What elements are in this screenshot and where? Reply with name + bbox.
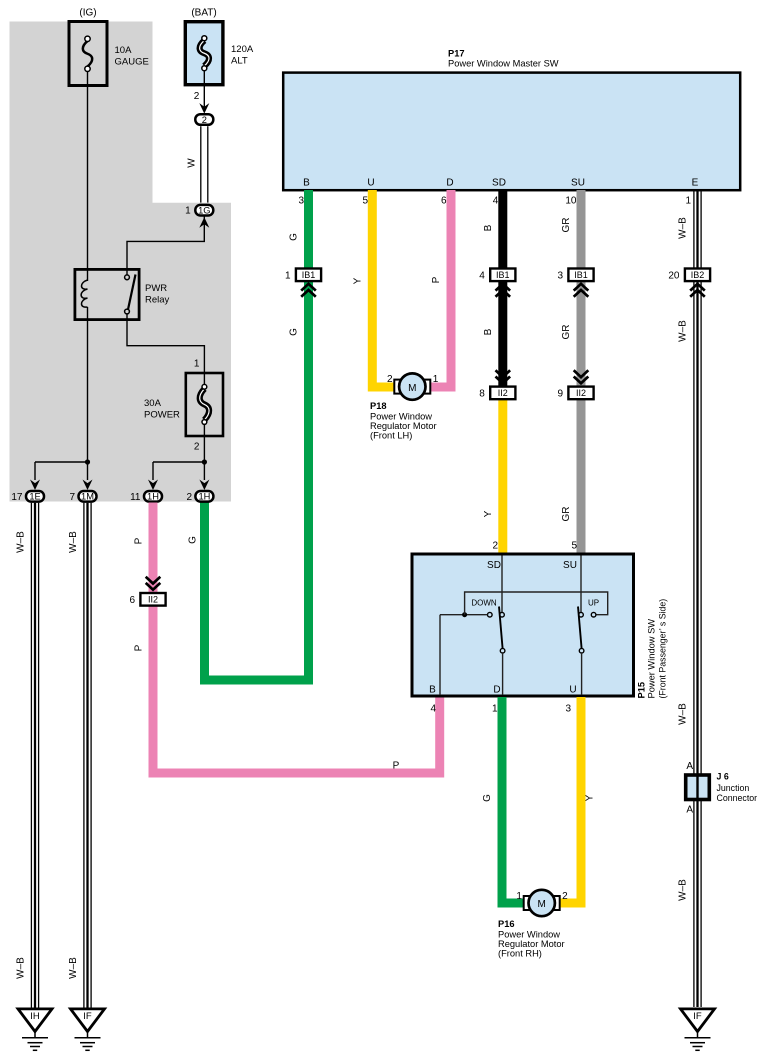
wire label W-B 1 <box>678 217 689 239</box>
svg-text:1H: 1H <box>147 492 159 502</box>
pin number 1 P15 <box>492 704 498 715</box>
P15 switch DOWN blade <box>499 607 503 649</box>
svg-text:GAUGE: GAUGE <box>115 57 149 68</box>
wire W-B 1E to ground IH <box>31 503 38 1008</box>
motor P18 pin 2 <box>387 374 393 385</box>
svg-text:W: W <box>187 158 198 168</box>
svg-text:G: G <box>289 233 300 241</box>
connector oval 17 1E <box>11 491 44 503</box>
wire label P mid <box>134 644 145 651</box>
P17 pin label D <box>446 178 453 189</box>
pin number 1 <box>685 196 691 207</box>
svg-text:ALT: ALT <box>231 56 248 67</box>
svg-text:D: D <box>493 685 500 696</box>
svg-text:8: 8 <box>479 388 485 399</box>
svg-text:P: P <box>134 644 145 651</box>
P15 name line 2 <box>658 599 668 699</box>
svg-text:Y: Y <box>483 510 494 517</box>
svg-text:J 6: J 6 <box>717 772 729 782</box>
wire GR gray P17 pin SU(10) to P15 pin SU(5) <box>577 190 586 555</box>
junction connector J6 <box>686 772 757 804</box>
svg-text:A: A <box>686 805 693 816</box>
J6 pin A upper <box>686 761 693 772</box>
svg-text:W–B: W–B <box>16 531 27 553</box>
P15 switch UP blade <box>578 607 582 649</box>
arrow into 2 1H <box>199 480 209 491</box>
svg-text:IB1: IB1 <box>496 270 510 280</box>
svg-text:20: 20 <box>668 270 680 281</box>
wire label W-B left2 upper <box>68 531 79 553</box>
svg-text:1E: 1E <box>29 492 40 502</box>
svg-text:6: 6 <box>441 196 447 207</box>
svg-text:P: P <box>134 537 145 544</box>
svg-text:2: 2 <box>387 374 393 385</box>
P15 designator text <box>637 682 647 699</box>
wire label B upper <box>483 224 494 231</box>
motor P18 pin 1 <box>433 374 439 385</box>
svg-text:Regulator Motor: Regulator Motor <box>498 939 565 949</box>
gray engine-room harness region <box>10 22 232 502</box>
svg-text:II2: II2 <box>576 388 586 398</box>
P15 UP contact circle <box>591 612 596 617</box>
motor P18 text <box>370 401 437 441</box>
P17 pin label U <box>367 178 374 189</box>
wire label W-B left1 upper <box>16 531 27 553</box>
pin number 4 P15 <box>430 704 436 715</box>
wire 30A fuse to junction <box>203 424 205 480</box>
svg-text:W–B: W–B <box>678 217 689 239</box>
ground IH <box>18 1009 52 1050</box>
motor P18 Power Window Regulator Motor (Front LH) <box>394 373 430 399</box>
svg-text:4: 4 <box>479 270 485 281</box>
wire P pink P17 pin D(6) to motor P18 pin 1 <box>427 190 451 387</box>
svg-text:W–B: W–B <box>678 703 689 725</box>
fusible link 120A ALT (BAT) <box>185 8 254 85</box>
connector 9 II2 on gray wire <box>557 370 593 399</box>
svg-text:IB2: IB2 <box>691 270 705 280</box>
svg-text:4: 4 <box>493 196 499 207</box>
svg-text:Connector: Connector <box>717 793 758 803</box>
svg-text:W–B: W–B <box>678 879 689 901</box>
svg-text:B: B <box>483 328 494 335</box>
svg-text:P: P <box>393 761 400 772</box>
P15 switch DOWN pivot circle <box>500 612 505 617</box>
wire relay switch to 30A fuse <box>127 314 204 373</box>
svg-text:1: 1 <box>685 196 691 207</box>
wire W-B P17 pin E(1) to ground IF <box>694 190 701 1007</box>
svg-text:2: 2 <box>202 115 207 125</box>
svg-text:(BAT): (BAT) <box>191 8 216 19</box>
svg-text:E: E <box>692 178 699 189</box>
svg-text:P18: P18 <box>370 401 387 411</box>
P17 pin label SD <box>492 178 506 189</box>
svg-text:1M: 1M <box>81 492 94 502</box>
svg-text:G: G <box>188 536 199 544</box>
wire B black P17 pin SD(4) to connector II2 <box>498 190 507 393</box>
relay PWR Relay <box>75 269 170 319</box>
svg-text:30A: 30A <box>144 398 162 409</box>
wire label W-B 2 <box>678 320 689 342</box>
P15 internal U line <box>581 653 583 695</box>
svg-text:2: 2 <box>186 492 192 503</box>
svg-text:Power Window SW: Power Window SW <box>647 619 657 699</box>
connector oval 2 <box>195 114 213 125</box>
P15 pin label SU <box>563 560 577 571</box>
motor P16 pin 1 <box>516 891 522 902</box>
svg-text:B: B <box>303 178 310 189</box>
P15 switch DOWN lower circle <box>500 648 505 653</box>
svg-text:Power Window: Power Window <box>498 930 560 940</box>
svg-text:D: D <box>446 178 453 189</box>
svg-text:(Front Passenger’ s Side): (Front Passenger’ s Side) <box>658 599 668 699</box>
svg-text:2: 2 <box>194 91 200 102</box>
ground IF left <box>71 1009 105 1050</box>
P15 pin label U <box>569 685 576 696</box>
svg-text:DOWN: DOWN <box>471 598 497 607</box>
wire label P horizontal <box>393 761 400 772</box>
wire label G upper <box>289 233 300 241</box>
wire label Y lower <box>483 510 494 517</box>
svg-text:120A: 120A <box>231 44 254 55</box>
wire label W <box>187 158 198 168</box>
P15 pin label SD <box>487 560 501 571</box>
svg-text:GR: GR <box>561 507 572 522</box>
arrow into 1G <box>199 217 209 228</box>
pin number 1 fuse <box>194 358 200 369</box>
wire label GR lower <box>561 507 572 522</box>
svg-text:Y: Y <box>353 277 364 284</box>
svg-text:9: 9 <box>557 388 563 399</box>
connector oval 11 1H <box>130 491 162 503</box>
svg-text:3: 3 <box>557 270 563 281</box>
svg-text:A: A <box>686 761 693 772</box>
svg-text:Power Window: Power Window <box>370 412 432 422</box>
svg-text:SD: SD <box>492 178 506 189</box>
arrow into 1E <box>30 480 40 491</box>
wire G green P17 pin B(3) to connector 1H via IB1 <box>205 190 309 680</box>
P15 switch UP lower circle <box>579 648 584 653</box>
svg-text:(Front RH): (Front RH) <box>498 949 542 959</box>
P15 label DOWN <box>471 598 497 607</box>
wire label G mid <box>289 328 300 336</box>
svg-text:5: 5 <box>571 541 577 552</box>
arrow into connector 2 <box>199 103 209 114</box>
svg-text:P: P <box>431 276 442 283</box>
wire relay coil to junction <box>87 307 89 480</box>
wire label W-B 3 <box>678 703 689 725</box>
svg-text:Regulator Motor: Regulator Motor <box>370 421 437 431</box>
svg-text:W–B: W–B <box>68 957 79 979</box>
fuse 10A GAUGE (IG) <box>69 8 149 86</box>
P17 pin label SU <box>571 178 585 189</box>
wire IG fuse to relay coil <box>87 71 89 281</box>
P15 DOWN contact lead <box>440 614 488 616</box>
svg-text:Y: Y <box>585 794 596 801</box>
wire Y yellow P17 pin U(5) to motor P18 pin 2 <box>372 190 398 387</box>
svg-text:PWR: PWR <box>145 283 167 294</box>
svg-text:G: G <box>289 328 300 336</box>
wire branch to 1E <box>35 462 88 480</box>
wire 1G to PWR relay switch <box>127 216 204 275</box>
svg-text:SU: SU <box>563 560 577 571</box>
connector 3 IB1 on gray wire <box>557 269 593 297</box>
wire Y yellow P15 pin U(3) to motor P16 pin 2 <box>556 697 581 903</box>
wire branch to 11 1H <box>153 462 204 480</box>
wire W white connector 2 to 1G <box>201 126 208 202</box>
pin number 3 <box>298 196 304 207</box>
svg-text:G: G <box>482 794 493 802</box>
P17 pin label B <box>303 178 310 189</box>
svg-text:UP: UP <box>588 598 599 607</box>
svg-text:U: U <box>367 178 374 189</box>
P15 internal SD line <box>501 556 503 613</box>
arrow into 1M <box>83 480 93 491</box>
svg-text:1: 1 <box>194 358 200 369</box>
svg-text:3: 3 <box>565 704 571 715</box>
wire label P <box>431 276 442 283</box>
P17 pin label E <box>692 178 699 189</box>
svg-text:POWER: POWER <box>144 410 180 421</box>
svg-text:GR: GR <box>561 218 572 233</box>
connector oval 1G <box>185 205 213 217</box>
svg-text:IH: IH <box>30 1011 40 1022</box>
pin number 6 <box>441 196 447 207</box>
wire label B lower <box>483 328 494 335</box>
svg-text:10: 10 <box>565 196 577 207</box>
pin number 2 fuse <box>194 441 200 452</box>
svg-text:7: 7 <box>69 492 75 503</box>
svg-text:SD: SD <box>487 560 501 571</box>
connector 6 II2 on pink wire <box>129 577 165 606</box>
pin number 2 <box>194 91 200 102</box>
pin number 3 P15 <box>565 704 571 715</box>
J6 pin A lower <box>686 805 693 816</box>
wire G green P15 pin D(1) to motor P16 pin 1 <box>502 697 527 903</box>
pin number 5 above P15 <box>571 541 577 552</box>
junction dot fuse branch <box>202 459 207 464</box>
svg-text:1: 1 <box>285 270 291 281</box>
connector 20 IB2 on W-B wire <box>668 269 710 297</box>
svg-text:GR: GR <box>561 325 572 340</box>
switch box P15 Power Window SW (Front Passenger side) <box>412 554 634 696</box>
svg-text:B: B <box>483 224 494 231</box>
svg-text:1H: 1H <box>198 492 210 502</box>
svg-text:W–B: W–B <box>16 957 27 979</box>
wire label W-B 4 <box>678 879 689 901</box>
P15 pin label B <box>429 685 436 696</box>
wire label W-B left2 lower <box>68 957 79 979</box>
svg-text:Junction: Junction <box>717 783 750 793</box>
pin number 10 <box>565 196 577 207</box>
P15 internal SU line <box>580 556 582 613</box>
svg-text:IF: IF <box>693 1011 702 1022</box>
wire Y yellow II2 to P15 pin SD(2) <box>498 392 507 555</box>
wire label W-B left1 lower <box>16 957 27 979</box>
svg-text:2: 2 <box>492 541 498 552</box>
svg-text:Relay: Relay <box>145 295 170 306</box>
P15 label UP <box>588 598 599 607</box>
wire label Y <box>353 277 364 284</box>
wire label G bottom <box>482 794 493 802</box>
connector oval 7 1M <box>69 491 96 503</box>
pin number 4 <box>493 196 499 207</box>
motor P16 text <box>498 919 565 959</box>
wire label GR mid <box>561 325 572 340</box>
wire label P upper <box>134 537 145 544</box>
motor P16 pin 2 <box>562 891 568 902</box>
svg-text:2: 2 <box>194 441 200 452</box>
svg-text:B: B <box>429 685 436 696</box>
svg-text:1: 1 <box>433 374 439 385</box>
svg-text:1: 1 <box>516 891 522 902</box>
connector oval 2 1H <box>186 491 213 503</box>
svg-text:IB1: IB1 <box>302 270 316 280</box>
svg-text:IB1: IB1 <box>574 270 588 280</box>
svg-text:P16: P16 <box>498 919 515 929</box>
svg-text:Power Window Master SW: Power Window Master SW <box>448 59 559 69</box>
P15 internal B riser <box>439 615 441 695</box>
motor P16 Power Window Regulator Motor (Front RH) <box>524 890 560 916</box>
P15 internal D line <box>502 653 504 695</box>
wire P pink 1H via II2 to P15 pin B(4) <box>153 503 440 774</box>
svg-text:II2: II2 <box>498 388 508 398</box>
P15 internal loop wire <box>465 592 608 615</box>
svg-text:W–B: W–B <box>678 320 689 342</box>
connector 1 IB1 on green wire <box>285 269 321 297</box>
svg-text:II2: II2 <box>148 595 158 605</box>
connector 4 IB1 on black wire <box>479 269 515 297</box>
svg-text:M: M <box>408 383 416 394</box>
svg-text:(Front LH): (Front LH) <box>370 431 412 441</box>
wire label GR upper <box>561 218 572 233</box>
svg-text:4: 4 <box>430 704 436 715</box>
svg-text:P15: P15 <box>637 682 647 699</box>
P15 name line 1 <box>647 619 657 699</box>
svg-text:3: 3 <box>298 196 304 207</box>
P15 junction dot <box>462 612 467 617</box>
pin number 5 <box>362 196 368 207</box>
fuse 30A POWER <box>144 373 223 436</box>
wire W-B 1M to ground IF <box>84 503 91 1008</box>
svg-text:W–B: W–B <box>68 531 79 553</box>
svg-text:2: 2 <box>562 891 568 902</box>
svg-text:IF: IF <box>83 1011 92 1022</box>
pin number 2 above P15 <box>492 541 498 552</box>
svg-text:6: 6 <box>129 595 135 606</box>
ECU box P17 Power Window Master SW <box>283 48 740 190</box>
wire BAT fuse to connector 2 <box>203 71 205 108</box>
connector 8 II2 black to yellow <box>479 370 515 399</box>
wire label G left <box>188 536 199 544</box>
svg-text:M: M <box>538 899 546 910</box>
arrow into 11 1H <box>148 480 158 491</box>
svg-text:11: 11 <box>130 492 141 503</box>
svg-text:5: 5 <box>362 196 368 207</box>
svg-text:SU: SU <box>571 178 585 189</box>
P15 switch UP pivot circle <box>579 612 584 617</box>
ground IF right <box>681 1009 715 1050</box>
svg-text:1: 1 <box>492 704 498 715</box>
svg-text:P17: P17 <box>448 48 465 58</box>
P15 DOWN contact circle <box>488 612 493 617</box>
svg-text:10A: 10A <box>115 45 133 56</box>
wire label Y bottom <box>585 794 596 801</box>
svg-text:1G: 1G <box>198 206 210 216</box>
svg-text:17: 17 <box>11 492 23 503</box>
P15 pin label D <box>493 685 500 696</box>
svg-text:U: U <box>569 685 576 696</box>
svg-text:1: 1 <box>185 206 191 217</box>
junction dot coil branch <box>85 459 90 464</box>
svg-text:(IG): (IG) <box>79 8 96 19</box>
